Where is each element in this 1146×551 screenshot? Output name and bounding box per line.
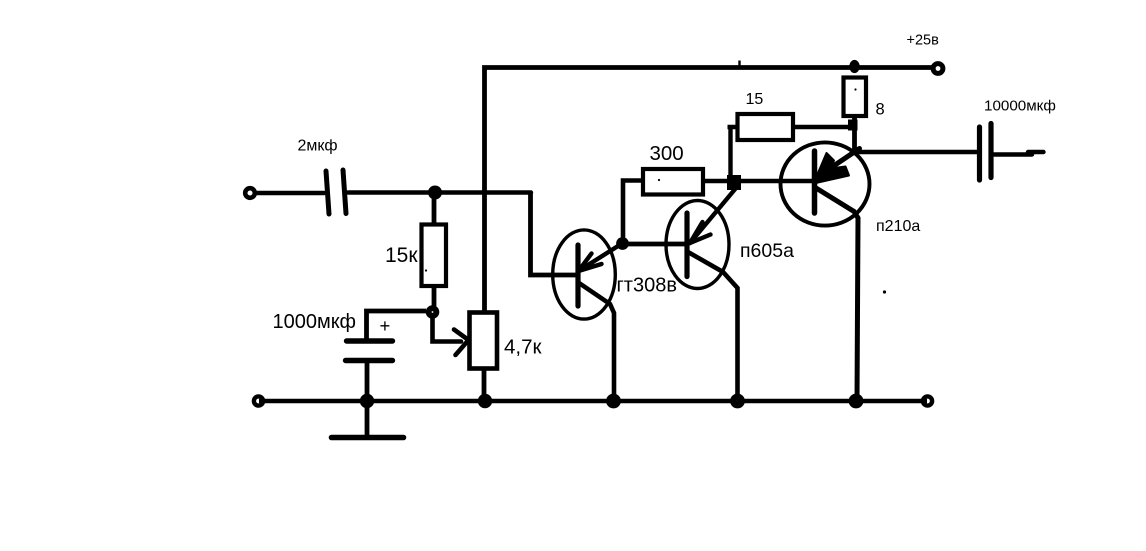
Q3 base bar	[812, 151, 818, 213]
rail node at Q2	[730, 394, 745, 409]
resistor R3 15 left L-wire	[728, 125, 739, 178]
svg-text:2мкф: 2мкф	[298, 138, 338, 155]
rail terminal right	[923, 396, 932, 405]
transistor Q3 п210а body	[781, 142, 870, 225]
wire node C up to R5 left	[623, 181, 643, 245]
node B junction dot	[426, 305, 440, 319]
svg-text:8: 8	[876, 101, 885, 119]
resistor R1 15к	[422, 225, 447, 287]
capacitor C2 1000мкф plates	[346, 341, 393, 361]
output wire right of C3	[994, 152, 1044, 155]
rail node at Q3	[849, 394, 864, 409]
svg-text:4,7к: 4,7к	[504, 336, 542, 359]
rail node at Q1	[606, 394, 621, 409]
Q2 emitter wire with arrow	[690, 188, 736, 243]
node C (Q1 emitter / 300 / Q2 base)	[616, 237, 629, 250]
stray dot near п210а	[883, 290, 886, 293]
Q1 base bar	[575, 245, 580, 306]
svg-text:300: 300	[650, 142, 684, 165]
Q3 emitter wire with filled arrow	[814, 149, 860, 184]
stray dot in R1	[425, 269, 427, 271]
Q1 collector wire down to rail	[579, 283, 614, 401]
output wire to C3	[854, 150, 977, 155]
long wire R2 top up to +25в rail and right to terminal	[485, 68, 934, 312]
ground symbol	[365, 401, 370, 437]
bottom ground rail	[259, 399, 927, 404]
rail terminal left	[254, 396, 263, 405]
wire R4 bottom down to emitter junction	[852, 116, 857, 152]
+25в terminal	[933, 64, 943, 74]
svg-text:+25в: +25в	[907, 33, 940, 49]
rail node at R2	[478, 394, 492, 408]
pot wiper wire and arrow	[433, 316, 469, 355]
node A junction dot	[428, 186, 442, 200]
junction dot rail / R4	[849, 60, 859, 73]
capacitor C1 2мкф	[326, 170, 346, 214]
junction blob below R4	[848, 120, 858, 131]
svg-text:1000мкф: 1000мкф	[273, 311, 356, 333]
wire R2 bottom to rail	[482, 369, 487, 401]
wire R1 bottom to node B	[432, 286, 437, 310]
Q3 collector wire down to rail	[816, 188, 858, 401]
wire input to C1	[257, 191, 324, 196]
wire R3 right to R4 column	[793, 125, 853, 129]
resistor R5 300	[643, 169, 703, 195]
stray dot in R5	[658, 179, 660, 181]
wire node A down to R1	[432, 196, 437, 226]
svg-text:10000мкф: 10000мкф	[984, 98, 1056, 115]
capacitor C3 10000мкф plates	[980, 124, 992, 181]
svg-text:15: 15	[746, 91, 764, 108]
svg-text:+: +	[380, 315, 391, 336]
Q2 base bar	[684, 213, 689, 277]
stray dot in R4	[854, 88, 856, 90]
svg-text:гт308в: гт308в	[617, 275, 677, 297]
potentiometer R2 4,7к body	[470, 313, 498, 369]
wire node C to Q2 base	[623, 242, 687, 247]
resistor R3 15	[738, 114, 794, 140]
stray tick on top rail	[738, 61, 740, 67]
resistor R4 8	[844, 78, 867, 117]
wire corner down to Q1 base level	[531, 193, 579, 275]
svg-text:п210а: п210а	[876, 218, 920, 235]
wire C1 to corner (crosses long vertical)	[348, 190, 531, 194]
input terminal J1	[245, 188, 255, 198]
svg-text:п605а: п605а	[740, 240, 794, 262]
rail node at C2	[360, 394, 374, 408]
transistor Q1 гт308в body	[553, 230, 616, 319]
Q2 collector wire down to rail	[688, 252, 738, 401]
transistor Q2 п605а body	[666, 201, 729, 289]
wire C2 bottom to rail	[365, 361, 370, 401]
wire junction blob to Q3 base	[738, 179, 813, 184]
wire node B to C2 top	[367, 311, 427, 339]
svg-text:15к: 15к	[385, 244, 418, 267]
Q1 emitter wire with arrow	[579, 244, 623, 272]
wire R5 right to junction blob	[703, 179, 730, 184]
junction blob base net Q3	[727, 175, 741, 190]
